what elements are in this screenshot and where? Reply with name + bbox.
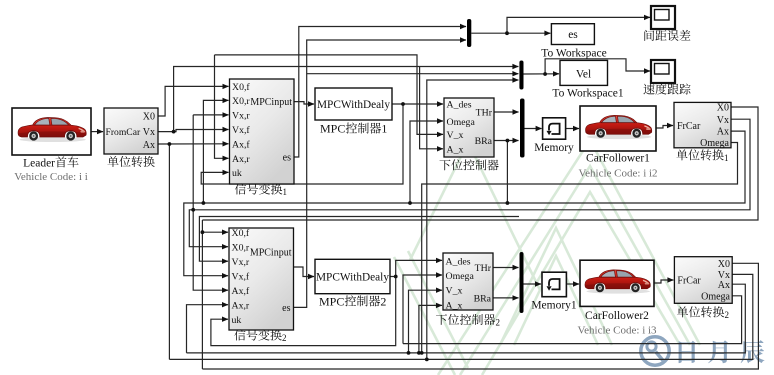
block Memory1: [531, 272, 577, 311]
wire branch to scope2 速度跟踪: [545, 59, 650, 74]
wire FrCar2 Vx wrap bus359: [169, 274, 752, 359]
svg-text:Vel: Vel: [576, 68, 591, 80]
wire FrCar1 Omega wrap bus184: [422, 143, 738, 353]
svg-text:Vx: Vx: [143, 127, 155, 138]
svg-text:Vx,r: Vx,r: [232, 257, 250, 268]
wire mux2 output to Vel: [524, 73, 560, 75]
svg-text:Ax: Ax: [143, 140, 155, 151]
svg-text:Vehicle Code: i i3: Vehicle Code: i i3: [577, 324, 657, 336]
svg-text:Omega: Omega: [446, 271, 475, 282]
wire THr1 to demux1: [494, 111, 519, 113]
svg-text:Omega: Omega: [447, 117, 476, 128]
wire Memory1 to CarFollower2: [566, 283, 579, 285]
wire Memory to CarFollower1: [566, 128, 579, 130]
svg-text:2: 2: [380, 294, 386, 308]
block 下位控制器1: [439, 98, 498, 170]
wire FromCar X0 to X0,f1: [158, 86, 229, 116]
svg-text:Vehicle Code: i i2: Vehicle Code: i i2: [578, 167, 657, 179]
wire A_x2 from bus352: [419, 305, 442, 353]
wire line C into Ax,r1: [215, 55, 229, 158]
block 信号变换1: [230, 79, 295, 197]
wire line C top to V_x1: [215, 55, 444, 134]
block FrCar2 单位转换2: [674, 257, 732, 320]
svg-text:A_x: A_x: [446, 301, 463, 312]
svg-text:FromCar: FromCar: [106, 127, 141, 138]
svg-text:To Workspace1: To Workspace1: [552, 87, 623, 99]
svg-text:es: es: [282, 303, 290, 314]
wire vertical x169 from Ax junction down to bus359: [168, 144, 170, 359]
svg-text:X0,r: X0,r: [232, 96, 250, 107]
wire FrCar1 X0 wrap to X0,f2: [202, 107, 758, 220]
svg-text:Ax,f: Ax,f: [232, 286, 250, 297]
wire CarFollower2 to FrCar2: [654, 280, 673, 283]
svg-text:Vx,r: Vx,r: [232, 111, 250, 122]
svg-text:MPCWithDealy: MPCWithDealy: [317, 99, 390, 111]
wire FrCar1 Vx wrap bus209.8 to X0,r2: [189, 119, 750, 247]
wire BRa1 branch down to bus203: [506, 141, 508, 204]
block Memory: [534, 118, 574, 154]
mux1 (top): [467, 19, 471, 47]
wire uk2 feedback: [211, 277, 396, 346]
watermark green zigzag: [394, 140, 700, 375]
block CarFollower2: [577, 260, 657, 336]
svg-text:V_x: V_x: [447, 130, 464, 141]
svg-text:Omega: Omega: [701, 291, 730, 302]
svg-text:uk: uk: [232, 315, 242, 326]
block 信号变换2: [229, 228, 294, 343]
wire es2 riser to mux1 input2: [293, 40, 466, 307]
svg-text:Leader: Leader: [23, 158, 55, 170]
wire CarFollower1 to FrCar1: [656, 126, 673, 129]
block es To Workspace: [541, 24, 606, 60]
wire mux2 input2: [307, 73, 519, 75]
wire Omega2 from bus343: [403, 275, 442, 344]
svg-text:CarFollower1: CarFollower1: [586, 152, 650, 164]
svg-text:A_des: A_des: [447, 100, 472, 111]
wire es1 riser to mux1 input1: [294, 27, 466, 158]
svg-text:MPCinput: MPCinput: [250, 97, 292, 108]
wire branch to scope1 间距误差: [507, 17, 650, 33]
wire THr2 to mux3: [493, 267, 519, 269]
svg-text:To Workspace: To Workspace: [541, 47, 606, 59]
wire Leader to FromCar: [91, 131, 103, 133]
svg-text:Vehicle Code: i i: Vehicle Code: i i: [14, 171, 88, 183]
svg-text:Vx,f: Vx,f: [232, 125, 250, 136]
svg-text:X0: X0: [143, 112, 155, 123]
wire Vx branch up to mux2 input1: [174, 67, 519, 132]
svg-text:BRa: BRa: [475, 136, 493, 147]
svg-text:1: 1: [381, 122, 387, 136]
svg-text:MPCinput: MPCinput: [250, 248, 292, 259]
block MPC controller 1: [315, 88, 392, 136]
wire Ax,r2 from bus352 left corner: [187, 305, 229, 353]
svg-text:Vx: Vx: [717, 115, 729, 126]
svg-text:THr: THr: [476, 108, 493, 119]
svg-text:X0,r: X0,r: [232, 242, 250, 253]
wire FrCar2 Ax wrap bus352: [187, 284, 746, 353]
wire MPCinput1 to MPC controller 1: [294, 102, 314, 104]
block CarFollower1: [578, 106, 657, 179]
svg-text:X0: X0: [718, 259, 730, 270]
wire BRa1 to demux1: [494, 140, 519, 142]
wire FrCar2 Omega wrap bus343: [403, 296, 742, 344]
svg-text:V_x: V_x: [446, 286, 463, 297]
svg-text:A_des: A_des: [446, 256, 471, 267]
wire FromCar Vx to Vx,f1: [158, 130, 229, 132]
wire FromCar Ax to Ax,f1: [158, 143, 229, 145]
svg-text:MPC: MPC: [320, 122, 345, 136]
svg-text:Ax,r: Ax,r: [232, 154, 250, 165]
svg-text:MPCWithDealy: MPCWithDealy: [316, 271, 389, 283]
wire mux1 output to es block: [471, 32, 550, 34]
svg-text:Omega: Omega: [700, 138, 729, 149]
wire Vx,r1 from x193 vertical: [193, 114, 228, 116]
wire MPC1 out to A_des1: [392, 103, 443, 105]
svg-text:Memory1: Memory1: [531, 300, 577, 312]
wire BRa2 to mux3: [493, 297, 519, 299]
svg-text:Vx,f: Vx,f: [232, 271, 250, 282]
wire bus216 to Vx,r2: [199, 217, 519, 262]
svg-text:2: 2: [282, 333, 287, 343]
svg-text:es: es: [568, 29, 578, 41]
wire from mux2-in1 line down to A_x1: [420, 67, 443, 149]
svg-text:X0,f: X0,f: [232, 228, 250, 239]
svg-text:MPC: MPC: [319, 294, 344, 308]
svg-text:X0,f: X0,f: [232, 82, 250, 93]
svg-text:Memory: Memory: [534, 142, 574, 154]
block FrCar1 单位转换1: [674, 102, 731, 162]
block Leader vehicle: [12, 108, 91, 183]
svg-text:FrCar: FrCar: [677, 276, 701, 287]
watermark logo 日月辰: [641, 337, 765, 365]
block MPC controller 2: [315, 259, 390, 308]
wire mux2 input3 from x427 vertical: [427, 80, 519, 359]
svg-text:Ax,r: Ax,r: [232, 300, 250, 311]
wire FrCar1 Ax wrap bus203 to Vx,f2: [184, 131, 745, 276]
svg-text:CarFollower2: CarFollower2: [585, 310, 649, 322]
svg-text:Ax: Ax: [717, 127, 729, 138]
svg-text:Ax: Ax: [718, 280, 730, 291]
wire MPCinput2 to MPC controller 2: [293, 267, 314, 277]
svg-text:1: 1: [724, 153, 729, 163]
svg-text:uk: uk: [232, 168, 242, 179]
block 下位控制器2: [436, 253, 500, 328]
svg-text:X0: X0: [717, 103, 729, 114]
scope 间距误差: [644, 6, 690, 41]
svg-text:2: 2: [496, 318, 501, 328]
wire X0,r1 riser from bus203: [203, 100, 228, 203]
mux2 (Vel): [519, 61, 523, 90]
block Vel To Workspace1: [552, 60, 623, 99]
wire FrCar2 X0 wrap bus369: [202, 263, 758, 369]
mux3 (bottom): [520, 252, 524, 313]
wire demux1 to Memory: [525, 128, 542, 130]
demux1: [520, 99, 525, 158]
svg-text:es: es: [283, 153, 291, 164]
scope 速度跟踪: [643, 60, 690, 95]
svg-text:BRa: BRa: [474, 294, 492, 305]
wire Omega1 from bus203: [410, 121, 443, 203]
wire vertical x202 down to bus369 with X0,f2 arrow: [201, 220, 203, 369]
svg-text:Ax,f: Ax,f: [232, 140, 250, 151]
svg-text:2: 2: [725, 310, 730, 320]
wire uk1 feedback from MPC1 output: [201, 104, 403, 184]
wire vertical x193 (Vx,r1 / Ax,f2): [193, 115, 228, 290]
svg-text:FrCar: FrCar: [677, 121, 701, 132]
svg-text:THr: THr: [475, 263, 492, 274]
wire MPC2 out to A_des2: [390, 260, 442, 276]
wire V_x2 from bus352: [409, 290, 443, 353]
svg-text:1: 1: [283, 187, 288, 197]
block FromCar 单位转换: [104, 108, 158, 167]
wire mux3 to Memory1: [524, 283, 542, 285]
svg-text:A_x: A_x: [447, 145, 464, 156]
